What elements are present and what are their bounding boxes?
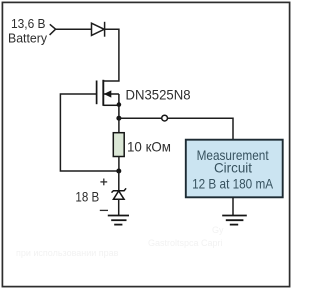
svg-text:18 В: 18 В <box>75 190 99 205</box>
svg-text:DN3525N8: DN3525N8 <box>126 86 191 102</box>
svg-text:13,6 В: 13,6 В <box>11 16 46 31</box>
gate bar <box>96 81 98 105</box>
wire: source node to measurement circuit <box>119 118 233 140</box>
diode D1 (series, pointing right) <box>92 22 105 37</box>
ground (below zener) <box>108 216 129 225</box>
wire: diode cathode right then down to MOSFET drain <box>103 29 119 81</box>
wire: top rail from battery to diode anode <box>56 28 92 30</box>
wire: resistor to zener node <box>118 157 120 172</box>
wire: zener anode to ground <box>118 199 120 215</box>
node A: source node dot <box>116 116 121 121</box>
body lead with arrow <box>104 93 119 95</box>
node B: open terminal circle on output wire <box>162 115 168 121</box>
svg-text:12 В at 180 mA: 12 В at 180 mA <box>192 175 274 191</box>
svg-text:Gastroltspca Capri: Gastroltspca Capri <box>148 238 223 248</box>
measurement circuit block U1 <box>186 140 283 198</box>
plus polarity mark <box>100 179 107 186</box>
wire: node to zener cathode <box>118 171 120 191</box>
node C: gate / zener node dot <box>116 169 121 174</box>
battery arrow (input chevron) <box>50 24 56 35</box>
ground (below measurement circuit) <box>222 216 247 225</box>
svg-text:10 кОм: 10 кОм <box>127 139 171 155</box>
watermark text <box>16 225 224 258</box>
body/source vertical <box>118 94 120 118</box>
wire: measurement circuit to ground <box>232 198 234 216</box>
resistor R1 10 kOhm <box>113 133 124 157</box>
wire: gate loop (gate left, down, right to zener node) <box>60 94 118 171</box>
zener diode Z1 18V <box>112 188 127 199</box>
source lead <box>103 104 119 106</box>
svg-text:Battery: Battery <box>8 30 48 45</box>
transistor Q1 DN3525N8 (N-channel depletion MOSFET) <box>97 80 119 118</box>
svg-text:при использовании прав: при использовании прав <box>16 248 119 258</box>
svg-text:Circuit: Circuit <box>214 160 252 176</box>
label 13,6 V Battery <box>8 16 48 46</box>
junction dot: body-source tie <box>117 102 122 107</box>
wire: source node down to resistor <box>118 118 120 133</box>
channel bar <box>102 80 104 106</box>
minus polarity mark <box>100 209 108 211</box>
svg-text:Gy: Gy <box>212 225 224 235</box>
